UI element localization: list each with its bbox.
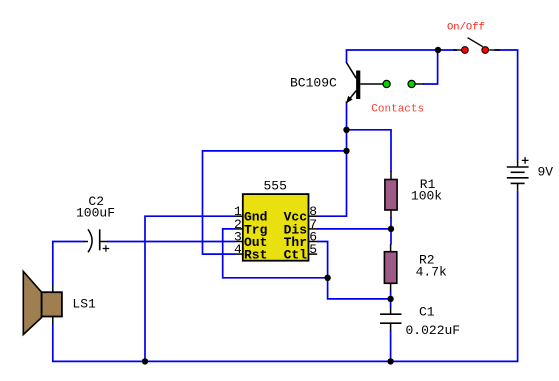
svg-text:4.7k: 4.7k [416, 264, 447, 279]
svg-text:LS1: LS1 [72, 297, 96, 312]
battery B1 plate long bottom [507, 177, 529, 179]
svg-text:Ctl: Ctl [284, 248, 308, 263]
pin stub 7 [309, 228, 318, 230]
capacitor C2 curved plate [88, 229, 92, 252]
wire: threshold pin 6 to R2/C1 junction [317, 242, 391, 299]
contact right stub [415, 83, 423, 85]
speaker LS1 cone [23, 271, 41, 334]
IC U1 555 body [243, 194, 309, 261]
wire: discharge pin 7 to R1/R2 junction [317, 228, 391, 230]
battery B1 plate long top [507, 166, 529, 168]
switch SW1 right stub [489, 49, 500, 51]
wire: emitter node vertical to Vcc pin 8 [317, 102, 347, 217]
switch SW1 left stub [453, 49, 461, 51]
transistor Q1 base bar [356, 71, 360, 100]
node: switch/contacts junction [435, 47, 441, 53]
svg-text:4: 4 [234, 242, 242, 257]
pin stub 8 [309, 215, 318, 217]
capacitor C2 left lead [84, 241, 88, 243]
svg-text:BC109C: BC109C [290, 76, 337, 91]
wire: C2 left to speaker top [53, 242, 85, 287]
transistor Q1 emitter lead [346, 91, 356, 103]
node: R1/R2/discharge junction [388, 226, 394, 232]
svg-text:C1: C1 [419, 304, 435, 319]
pin stub 5 [309, 253, 318, 255]
wire: battery negative to bottom rail to speaker [53, 191, 518, 362]
node: ground rail / C1 junction [387, 358, 393, 364]
speaker LS1 bottom lead [52, 317, 54, 325]
svg-text:100uF: 100uF [76, 206, 115, 221]
capacitor C1 bottom plate [380, 322, 402, 324]
svg-text:On/Off: On/Off [447, 22, 485, 34]
node: trigger/threshold junction [324, 275, 330, 281]
wire: output pin 3 to C2 [107, 241, 235, 243]
battery B1 top lead [517, 160, 519, 167]
capacitor C2 plus sign [103, 245, 110, 252]
speaker LS1 magnet [42, 292, 62, 316]
svg-text:9V: 9V [538, 165, 554, 180]
battery B1 plate short [511, 171, 525, 173]
capacitor C1 bottom lead [390, 323, 392, 330]
wire: emitter node to R1 top [347, 130, 392, 172]
wire: C1 bottom to ground rail [390, 330, 392, 361]
svg-text:100k: 100k [411, 189, 442, 204]
pin stub 1 [235, 215, 243, 217]
pin stub 3 [235, 241, 243, 243]
capacitor C2 straight plate [99, 229, 101, 250]
switch SW1 lever [468, 38, 483, 47]
capacitor C1 top plate [380, 313, 402, 315]
node: emitter/reset junction [343, 148, 349, 154]
pin stub 2 [235, 228, 243, 230]
resistor R1 top lead [390, 172, 392, 180]
resistor R1 body [385, 180, 397, 211]
transistor Q1 emitter arrow [346, 96, 352, 103]
pin stub 4 [235, 253, 243, 255]
node: emitter/R1 junction [343, 127, 349, 133]
transistor Q1 collector lead [347, 63, 357, 78]
wire: collector to switch rail [347, 50, 458, 63]
svg-text:555: 555 [264, 179, 287, 194]
node: ground rail / pin1 junction [142, 358, 148, 364]
capacitor C2 right lead [100, 241, 108, 243]
wire: R1 bottom to R2 top [390, 217, 392, 245]
switch SW1 right pole (red) [482, 47, 489, 54]
resistor R2 top lead [390, 244, 392, 252]
capacitor C1 top lead [390, 307, 392, 315]
wire: emitter node to reset pin 4 [203, 151, 347, 254]
battery B1 plate short bottom [511, 182, 525, 184]
transistor Q1 base lead [360, 83, 383, 85]
pin stub 6 [309, 241, 318, 243]
resistor R2 body [384, 252, 396, 284]
wire: R2 bottom to junction [390, 290, 392, 307]
node: R2/C1/threshold junction [387, 296, 393, 302]
svg-text:5: 5 [309, 242, 317, 257]
battery B1 bottom lead [517, 183, 519, 190]
contact probe left (green) [383, 80, 390, 87]
svg-text:Rst: Rst [244, 248, 267, 263]
contact probe right (green) [408, 80, 415, 87]
wire: ground pin 1 to bottom rail [145, 216, 235, 361]
svg-text:0.022uF: 0.022uF [406, 323, 461, 338]
wire: switch to battery positive [495, 50, 518, 160]
resistor R2 bottom lead [390, 283, 392, 290]
battery B1 plus sign [522, 157, 529, 164]
resistor R1 bottom lead [390, 210, 392, 218]
wire: contacts to switch junction [423, 50, 438, 84]
speaker LS1 top lead [52, 286, 54, 293]
switch SW1 left pole (red) [462, 47, 469, 54]
wire: trigger pin 2 to threshold net [223, 229, 328, 278]
svg-text:Contacts: Contacts [371, 104, 424, 116]
